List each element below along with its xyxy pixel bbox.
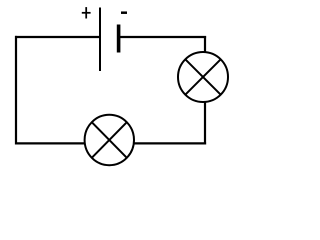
wire bottom-right segment <box>122 142 206 144</box>
battery positive plate (long) <box>99 8 101 72</box>
wire right vertical lower <box>204 95 206 145</box>
wire left vertical <box>15 36 17 145</box>
wire bottom-left segment <box>16 142 96 144</box>
label + (positive terminal) <box>82 7 91 18</box>
battery <box>82 7 127 71</box>
label - (negative terminal) <box>121 11 127 14</box>
battery negative plate (short thick) <box>117 25 121 53</box>
wire top-left segment <box>15 36 100 38</box>
lamp (right) <box>178 52 228 102</box>
wire right vertical upper <box>204 36 206 60</box>
lamp (bottom) <box>85 115 134 165</box>
wire top-right segment <box>119 36 207 38</box>
